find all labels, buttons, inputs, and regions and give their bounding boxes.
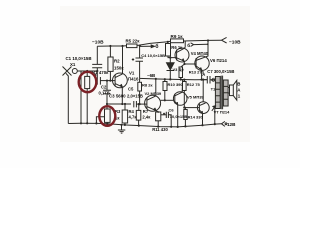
resistor R8 (139, 78, 141, 82)
wire bus end to C7 (202, 79, 208, 81)
wire top rail right segment (184, 39, 222, 42)
wire V2 to V3 base (161, 99, 174, 101)
wire V4 emitter to node (183, 61, 186, 64)
wire C4 down to -6V bus (139, 61, 141, 78)
capacitor C7 (207, 76, 210, 84)
svg-text:R8 2к: R8 2к (142, 83, 152, 88)
wire V5 collector to rail (205, 41, 208, 58)
connector X1 (63, 67, 72, 76)
svg-text:R4: R4 (129, 109, 135, 114)
svg-text:4,7к: 4,7к (129, 115, 138, 120)
transistor V6 (197, 102, 209, 114)
svg-text:V6 П214: V6 П214 (210, 58, 227, 63)
transformer T1 primary (215, 77, 220, 109)
wire node to V5 base (185, 63, 197, 65)
capacitor C3 (106, 81, 108, 91)
svg-text:R5 22к: R5 22к (126, 38, 141, 43)
wire input horizontal (77, 70, 97, 72)
svg-text:12В: 12В (227, 122, 236, 127)
wire primary top to C7 (214, 79, 216, 81)
test point arrow b in (191, 43, 208, 47)
power terminal +12V bottom right (222, 121, 225, 126)
svg-text:−6В: −6В (147, 73, 155, 78)
svg-text:Х1: Х1 (70, 62, 76, 67)
wire top rail mid segment (137, 41, 171, 45)
svg-text:С7 300,0×15В: С7 300,0×15В (207, 69, 234, 74)
capacitor C4 (139, 46, 141, 58)
wire to V4 base (184, 107, 199, 109)
wire input drop to bottom rail (80, 71, 82, 123)
resistor R7 (138, 104, 140, 110)
resistor R6 (167, 42, 169, 44)
svg-text:С3 5600: С3 5600 (109, 94, 126, 99)
wire bottom rail (68, 123, 221, 127)
wire V3 emitter down (177, 104, 179, 127)
svg-text:С5: С5 (128, 87, 134, 92)
svg-text:А: А (202, 72, 205, 77)
svg-text:С2: С2 (101, 85, 107, 90)
wire V6 collector riser (202, 80, 204, 102)
svg-text:V4 МП40: V4 МП40 (191, 51, 209, 56)
resistor R14 (184, 108, 186, 110)
wire second pole of X1 (66, 73, 69, 123)
wire top rail left segment (97, 45, 126, 48)
annotation arrow to transformer (212, 106, 216, 111)
svg-text:VТ П214: VТ П214 (214, 110, 231, 115)
resistor R3 (circled) (105, 109, 111, 122)
capacitor C6 (161, 114, 167, 116)
wire C1 to input node (96, 68, 98, 71)
transistor V2 (145, 95, 161, 111)
resistor R13 (181, 64, 185, 67)
svg-text:−10В: −10В (92, 39, 104, 45)
svg-text:2,0×15В: 2,0×15В (127, 94, 143, 99)
svg-text:С1 10,0×15В: С1 10,0×15В (66, 56, 92, 61)
ground (121, 125, 123, 130)
transistor V4 (175, 48, 189, 62)
wire C5 to V2 base (136, 103, 146, 105)
svg-text:R12 75: R12 75 (187, 82, 201, 87)
svg-text:б: б (155, 43, 158, 50)
svg-text:V5 МП39: V5 МП39 (187, 94, 204, 99)
wire V1 collector to rail (122, 46, 124, 74)
wire V6 emitter to rail (202, 113, 204, 125)
wire V4 collector (184, 41, 185, 49)
svg-text:R10 390: R10 390 (168, 82, 184, 87)
wire emitter node horizontal (107, 103, 131, 105)
resistor R5 (127, 44, 138, 48)
transistor V3 (173, 92, 187, 106)
transformer T1 core (221, 76, 222, 110)
resistor R12 (183, 80, 185, 82)
svg-text:В: В (237, 82, 240, 87)
resistor R4 (124, 104, 126, 110)
junction dots (80, 39, 216, 128)
resistor R2 (109, 46, 111, 57)
labels (66, 34, 242, 132)
transformer T1 secondary (223, 80, 228, 106)
resistor R11 (156, 112, 161, 121)
wire -6V bus (140, 78, 207, 79)
svg-text:R11 430: R11 430 (152, 127, 168, 132)
wire R3 tap (96, 117, 104, 124)
svg-text:V1: V1 (129, 71, 135, 76)
capacitor C2 (96, 71, 98, 77)
red highlight ring 2 (99, 106, 115, 126)
wire V2 collector up (155, 79, 157, 96)
wire V1 emitter down (121, 87, 123, 104)
svg-text:10,0×15В: 10,0×15В (170, 114, 188, 119)
power terminal -10V top right (222, 37, 227, 43)
svg-text:V3 Д9: V3 Д9 (173, 67, 185, 72)
wire C2 to V1 base (100, 80, 115, 82)
svg-text:П416: П416 (128, 77, 139, 82)
transistor V5 (195, 56, 209, 70)
svg-text:R2: R2 (114, 59, 120, 64)
svg-text:R6 1к: R6 1к (171, 45, 183, 50)
capacitor C5 (134, 101, 137, 107)
resistor R1 (86, 71, 88, 76)
svg-text:С4 10,0×15В: С4 10,0×15В (141, 53, 165, 58)
svg-text:−10В: −10В (229, 39, 241, 45)
svg-text:R14 330: R14 330 (188, 114, 204, 119)
svg-text:150к: 150к (114, 66, 124, 71)
capacitor C1 (92, 64, 102, 67)
wire primary bottom to rail (214, 109, 216, 125)
svg-text:б: б (187, 42, 190, 49)
svg-text:R7: R7 (143, 109, 149, 114)
wire V5 emitter to bus end (201, 70, 203, 80)
speaker BA1 (228, 88, 229, 94)
svg-text:V2 МП39: V2 МП39 (145, 91, 162, 96)
svg-text:С6: С6 (169, 107, 175, 112)
resistor R9 (171, 39, 184, 43)
resistor R10 (164, 79, 166, 81)
wire C1 stem from rail (96, 46, 98, 64)
svg-text:Т1: Т1 (211, 87, 216, 92)
test point arrow b out (140, 45, 151, 47)
red highlight ring 1 (79, 72, 97, 92)
wire V3 collector up (181, 80, 183, 93)
svg-text:2,4к: 2,4к (142, 114, 151, 119)
diode VD (169, 58, 171, 63)
transistor V1 (113, 73, 128, 88)
svg-text:R9 1к: R9 1к (171, 34, 184, 39)
wire V2 emitter (156, 111, 158, 112)
